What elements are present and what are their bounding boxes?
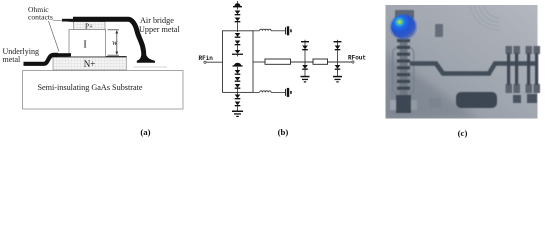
I layer — [69, 29, 106, 56]
diode D14 — [335, 65, 341, 76]
air bridge arc and post — [73, 19, 144, 57]
faint spiral arcs top right — [470, 6, 500, 30]
diode D1 — [235, 11, 241, 16]
label: Ohmic contacts — [28, 5, 74, 52]
diode D3 — [235, 33, 241, 38]
bottom small dark pads — [513, 95, 521, 103]
small dark pad — [435, 24, 443, 37]
photo background — [386, 5, 538, 119]
diode D12 — [302, 65, 308, 76]
diode D2 — [235, 18, 241, 33]
diode D9 — [235, 95, 241, 100]
node RFin terminal — [199, 55, 214, 63]
svg-text:(a): (a) — [140, 127, 150, 137]
diode D11 — [302, 46, 308, 66]
wire RFin to box — [206, 61, 222, 63]
pad above blob — [395, 10, 414, 19]
P+ layer — [74, 22, 106, 31]
ladder column — [397, 36, 410, 113]
main meander trace — [410, 64, 538, 74]
inductor L2 (bottom) — [253, 91, 285, 93]
svg-text:Upper metal: Upper metal — [139, 25, 180, 34]
H structure 2 — [526, 46, 541, 93]
svg-text:Air bridge: Air bridge — [140, 16, 174, 25]
film grain — [386, 6, 538, 119]
inductor L1 (top) — [253, 29, 285, 31]
svg-text:contacts: contacts — [28, 13, 53, 22]
diode D6 — [235, 70, 241, 75]
svg-text:P+: P+ — [85, 22, 93, 30]
wire TL2 to RFout — [328, 61, 352, 63]
svg-text:(c): (c) — [458, 128, 468, 138]
shunt branch 2 top bias pad — [334, 40, 342, 46]
diode D4 — [235, 41, 241, 51]
underlying metal — [24, 55, 59, 64]
node RFout terminal — [348, 55, 366, 64]
top terminal cap C1 — [233, 1, 242, 10]
bottom pad mid — [429, 98, 441, 108]
diode D10 — [235, 102, 241, 111]
svg-text:RFout: RFout — [348, 55, 366, 62]
w dimension arrow — [108, 30, 120, 55]
shunt branch 1 top bias pad — [301, 40, 309, 46]
label: Air bridge / Upper metal — [139, 16, 180, 34]
svg-text:I: I — [83, 39, 86, 50]
ground (branch 1) — [301, 76, 310, 83]
svg-text:w: w — [112, 38, 118, 47]
label: Underlying metal — [3, 47, 39, 64]
wire box to TL1 — [253, 61, 265, 63]
emission blob — [390, 14, 418, 41]
svg-text:N+: N+ — [84, 59, 96, 69]
ground (chain bottom) — [232, 111, 243, 118]
ladder bottom pads — [390, 95, 417, 113]
capacitor to ground (top right) — [285, 26, 292, 35]
diode D5 into capacitor plate — [232, 50, 243, 57]
svg-text:metal: metal — [3, 55, 22, 64]
H structure 1 — [506, 46, 521, 93]
diode D7 — [235, 77, 241, 82]
ground (branch 2) — [333, 76, 342, 83]
wire TL1 to TL2 — [291, 61, 314, 63]
capacitor to ground (bottom right) — [285, 88, 292, 97]
diode D8 — [235, 84, 241, 95]
ledge ohmic contact — [53, 53, 71, 56]
big dark pad bottom — [456, 92, 497, 108]
transmission line TL2 — [313, 59, 328, 64]
svg-text:Semi-insulating GaAs Substrate: Semi-insulating GaAs Substrate — [37, 83, 142, 92]
box loop (bias network rectangle) — [223, 31, 254, 93]
ladder outline — [393, 47, 414, 95]
capacitor C2 curved plate — [233, 63, 243, 70]
svg-text:RFin: RFin — [199, 55, 214, 62]
surface line under bridge — [134, 66, 168, 68]
upper metal bar (top ohmic contact) — [62, 19, 74, 22]
substrate box — [23, 71, 184, 110]
pad top middle — [418, 17, 434, 34]
diode D13 — [335, 46, 341, 66]
svg-text:(b): (b) — [278, 127, 289, 137]
transmission line TL1 — [265, 59, 291, 64]
N+ layer — [53, 56, 127, 70]
